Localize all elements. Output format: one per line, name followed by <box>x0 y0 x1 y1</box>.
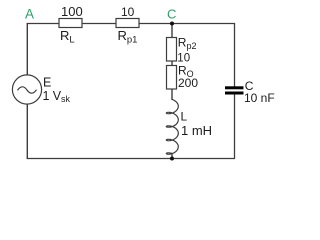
svg-text:RL: RL <box>60 28 75 45</box>
wire middle branch lower <box>171 153 173 159</box>
wire top: A to C to right corner <box>27 23 235 25</box>
capacitor C plates <box>225 86 244 89</box>
resistor R_O <box>167 66 177 90</box>
source sine symbol <box>18 87 37 93</box>
junction dot bottom <box>170 157 174 161</box>
svg-text:A: A <box>25 7 34 22</box>
svg-text:200: 200 <box>178 76 198 90</box>
wire right vertical lower <box>234 94 236 159</box>
svg-text:Rp2: Rp2 <box>178 35 197 51</box>
wire left vertical lower <box>26 105 28 160</box>
svg-text:1: 1 <box>43 89 50 103</box>
wire right vertical upper <box>234 23 236 87</box>
resistor R_p1 <box>116 19 139 28</box>
svg-text:Rp1: Rp1 <box>118 28 138 45</box>
wire bottom <box>27 158 235 160</box>
source E circle <box>12 75 41 104</box>
svg-text:10: 10 <box>121 5 135 19</box>
wire left vertical upper <box>26 23 28 75</box>
svg-text:100: 100 <box>61 4 83 19</box>
svg-text:C: C <box>167 6 176 21</box>
resistor R_p2 <box>167 38 177 62</box>
junction dot at node C <box>170 22 174 26</box>
svg-text:L: L <box>181 110 188 124</box>
svg-text:E: E <box>43 76 51 90</box>
wire middle branch upper <box>171 23 173 100</box>
svg-text:10 nF: 10 nF <box>244 91 275 105</box>
inductor L coil <box>166 100 178 155</box>
resistor R_L <box>59 19 82 28</box>
svg-text:Vsk: Vsk <box>53 89 71 104</box>
svg-text:1 mH: 1 mH <box>181 123 212 138</box>
